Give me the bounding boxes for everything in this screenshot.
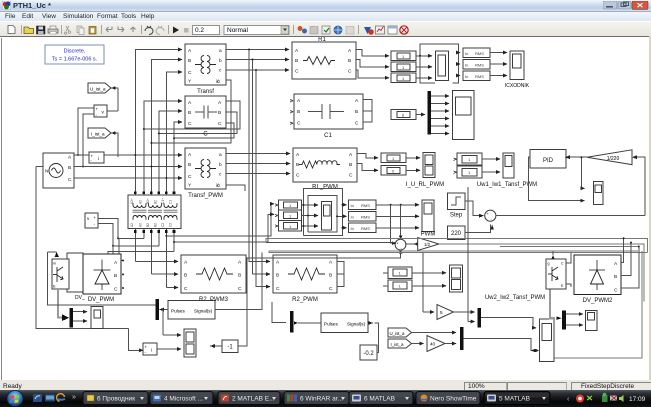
svg-text:b: b (219, 162, 222, 168)
svg-text:C1+: C1+ (161, 198, 165, 204)
svg-text:C: C (329, 286, 333, 292)
svg-text:In: In (465, 74, 468, 79)
svg-text:i: i (151, 348, 152, 353)
svg-text:a: a (219, 49, 222, 54)
svg-text:Discrete,: Discrete, (64, 49, 86, 55)
svg-text:A2: A2 (139, 200, 143, 204)
svg-text:B: B (296, 162, 299, 168)
svg-text:U_ist_a: U_ist_a (390, 331, 405, 336)
svg-text:C: C (561, 262, 564, 266)
svg-text:a: a (219, 153, 222, 158)
svg-text:I_U_RL_PWM: I_U_RL_PWM (406, 182, 444, 188)
svg-text:C2: C2 (169, 223, 173, 227)
svg-text:B: B (68, 165, 71, 171)
svg-text:B: B (348, 58, 351, 64)
svg-text:In: In (465, 63, 468, 68)
svg-text:C: C (276, 286, 280, 292)
svg-text:Ts = 1.667e-006 s.: Ts = 1.667e-006 s. (52, 57, 98, 63)
svg-text:C: C (348, 69, 352, 75)
svg-text:C: C (296, 173, 300, 179)
svg-text:Transf: Transf (197, 89, 214, 95)
svg-text:In: In (351, 215, 354, 220)
svg-text:DV_: DV_ (75, 295, 85, 301)
svg-text:i: i (98, 156, 99, 161)
svg-text:n2: n2 (216, 184, 220, 188)
svg-text:RMS: RMS (475, 51, 484, 56)
svg-text:B2: B2 (146, 223, 150, 227)
svg-text:»: » (72, 394, 76, 401)
svg-text:C: C (355, 121, 359, 127)
svg-text:N: N (45, 169, 49, 175)
svg-text:Pulses: Pulses (324, 322, 338, 327)
svg-text:g: g (548, 262, 550, 266)
svg-text:6 MATLAB: 6 MATLAB (364, 396, 395, 403)
svg-text:B: B (114, 273, 117, 279)
svg-text:A2: A2 (139, 223, 143, 227)
svg-text:C: C (68, 177, 72, 183)
svg-text:B2: B2 (154, 200, 158, 204)
svg-text:I_ist_a: I_ist_a (391, 342, 404, 347)
svg-text:C: C (614, 288, 618, 294)
svg-text:17:09: 17:09 (629, 396, 646, 403)
svg-text:E: E (53, 284, 56, 289)
svg-text:Step: Step (450, 213, 463, 219)
svg-text:In: In (351, 203, 354, 208)
svg-text:B: B (188, 110, 191, 116)
svg-text:2 MATLAB E...: 2 MATLAB E... (232, 396, 275, 403)
svg-text:1/220: 1/220 (607, 156, 620, 162)
svg-text:B: B (188, 162, 191, 168)
svg-text:DV_PWM: DV_PWM (88, 297, 114, 303)
svg-text:C: C (188, 121, 192, 127)
svg-text:B: B (238, 273, 241, 279)
svg-text:C: C (203, 132, 208, 138)
svg-text:C: C (188, 70, 192, 76)
svg-text:5 MATLAB: 5 MATLAB (499, 396, 530, 403)
svg-text:-0.2: -0.2 (363, 351, 374, 357)
svg-text:R2_PWM: R2_PWM (292, 297, 318, 303)
svg-text:C1: C1 (324, 133, 332, 139)
svg-text:B: B (184, 273, 187, 279)
svg-text:Pulses: Pulses (171, 309, 185, 314)
svg-text:PWM: PWM (421, 232, 436, 238)
svg-text:RMS: RMS (475, 74, 484, 79)
svg-text:RMS: RMS (475, 63, 484, 68)
svg-text:B: B (297, 109, 300, 115)
svg-text:4 Microsoft ...: 4 Microsoft ... (164, 396, 203, 403)
svg-text:Uw2_Iw2_Tansf_PWM: Uw2_Iw2_Tansf_PWM (485, 295, 545, 301)
svg-text:RMS: RMS (361, 215, 370, 220)
svg-text:B: B (276, 273, 279, 279)
svg-text:C: C (297, 121, 301, 127)
svg-text:Normal: Normal (227, 27, 249, 34)
svg-text:C: C (218, 121, 222, 127)
svg-text:n2: n2 (216, 80, 220, 84)
svg-text:B2+: B2+ (146, 198, 150, 204)
svg-text:A2+: A2+ (130, 198, 134, 204)
svg-text:40: 40 (430, 342, 436, 347)
svg-text:B: B (329, 273, 332, 279)
svg-text:B: B (218, 110, 221, 116)
svg-text:RMS: RMS (361, 226, 370, 231)
svg-text:B: B (349, 162, 352, 168)
svg-text:Transf_PWM: Transf_PWM (188, 193, 223, 199)
svg-text:B: B (188, 58, 191, 64)
svg-text:RL_PWM: RL_PWM (312, 185, 338, 191)
svg-text:C2: C2 (161, 223, 165, 227)
svg-text:C: C (295, 69, 299, 75)
svg-text:A2: A2 (130, 223, 134, 227)
svg-text:0.2: 0.2 (195, 27, 204, 34)
svg-text:C: C (184, 286, 188, 292)
svg-text:RMS: RMS (361, 203, 370, 208)
svg-text:6 Проводник: 6 Проводник (97, 396, 135, 403)
svg-text:b: b (219, 58, 222, 64)
svg-text:B: B (355, 109, 358, 115)
svg-text:‹: ‹ (567, 396, 570, 403)
svg-text:I_ist_a: I_ist_a (91, 132, 105, 137)
svg-text:C: C (238, 286, 242, 292)
svg-text:5: 5 (440, 310, 443, 315)
svg-text:B: B (614, 274, 617, 280)
svg-text:In: In (465, 51, 468, 56)
svg-text:DV_PWM2: DV_PWM2 (583, 298, 613, 304)
svg-text:m: m (53, 262, 56, 266)
svg-text:6 WinRAR ar...: 6 WinRAR ar... (300, 396, 343, 403)
svg-text:B: B (295, 58, 298, 64)
svg-text:C1: C1 (169, 200, 173, 204)
svg-text:220: 220 (451, 231, 462, 237)
svg-text:-1: -1 (227, 345, 233, 351)
svg-text:Signal(s): Signal(s) (194, 309, 213, 314)
svg-text:1/3: 1/3 (424, 242, 430, 247)
svg-text:Nero ShowTime: Nero ShowTime (430, 396, 477, 403)
svg-text:Signal(s): Signal(s) (347, 322, 366, 327)
svg-text:B2: B2 (154, 223, 158, 227)
svg-text:U_ist_a: U_ist_a (90, 87, 106, 92)
svg-text:PID: PID (543, 158, 554, 164)
svg-text:C: C (188, 174, 192, 180)
svg-text:ICXODNIK: ICXODNIK (505, 83, 530, 89)
svg-text:C: C (349, 173, 353, 179)
svg-text:In: In (351, 226, 354, 231)
svg-text:C: C (114, 287, 118, 293)
